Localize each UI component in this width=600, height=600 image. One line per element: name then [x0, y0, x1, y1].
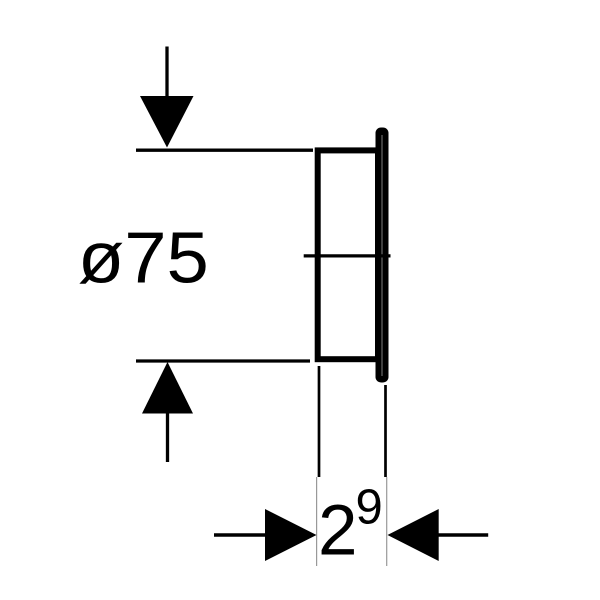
- svg-text:ø75: ø75: [78, 217, 209, 298]
- flange plate (side view, rounded bar): [376, 128, 389, 383]
- dimension arrow up (bottom of ø75) : tail: [166, 413, 169, 462]
- centerline through body: [304, 254, 391, 257]
- dimension arrow down (top of ø75) : tail: [165, 47, 168, 98]
- right extension line (black): [384, 385, 387, 477]
- flange inner hairline: [381, 135, 383, 376]
- right extension hairline (gray): [386, 477, 388, 566]
- right horizontal arrow tail: [438, 533, 488, 536]
- bottom dimension line (ø75 lower bound): [136, 359, 310, 362]
- left horizontal arrow tail: [214, 533, 266, 536]
- right horizontal arrow head (points left): [388, 509, 439, 561]
- svg-text:9: 9: [356, 481, 383, 535]
- left horizontal arrow head (points right): [265, 509, 317, 561]
- dimension arrow up (bottom of ø75) : head: [142, 362, 193, 414]
- svg-text:2: 2: [318, 492, 358, 571]
- left extension hairline (gray): [316, 477, 318, 566]
- plug body rectangle (side view): [318, 150, 378, 359]
- left extension line (black): [318, 366, 321, 477]
- top dimension line (ø75 upper bound): [136, 149, 313, 152]
- dimension arrow down (top of ø75) : head: [140, 96, 194, 148]
